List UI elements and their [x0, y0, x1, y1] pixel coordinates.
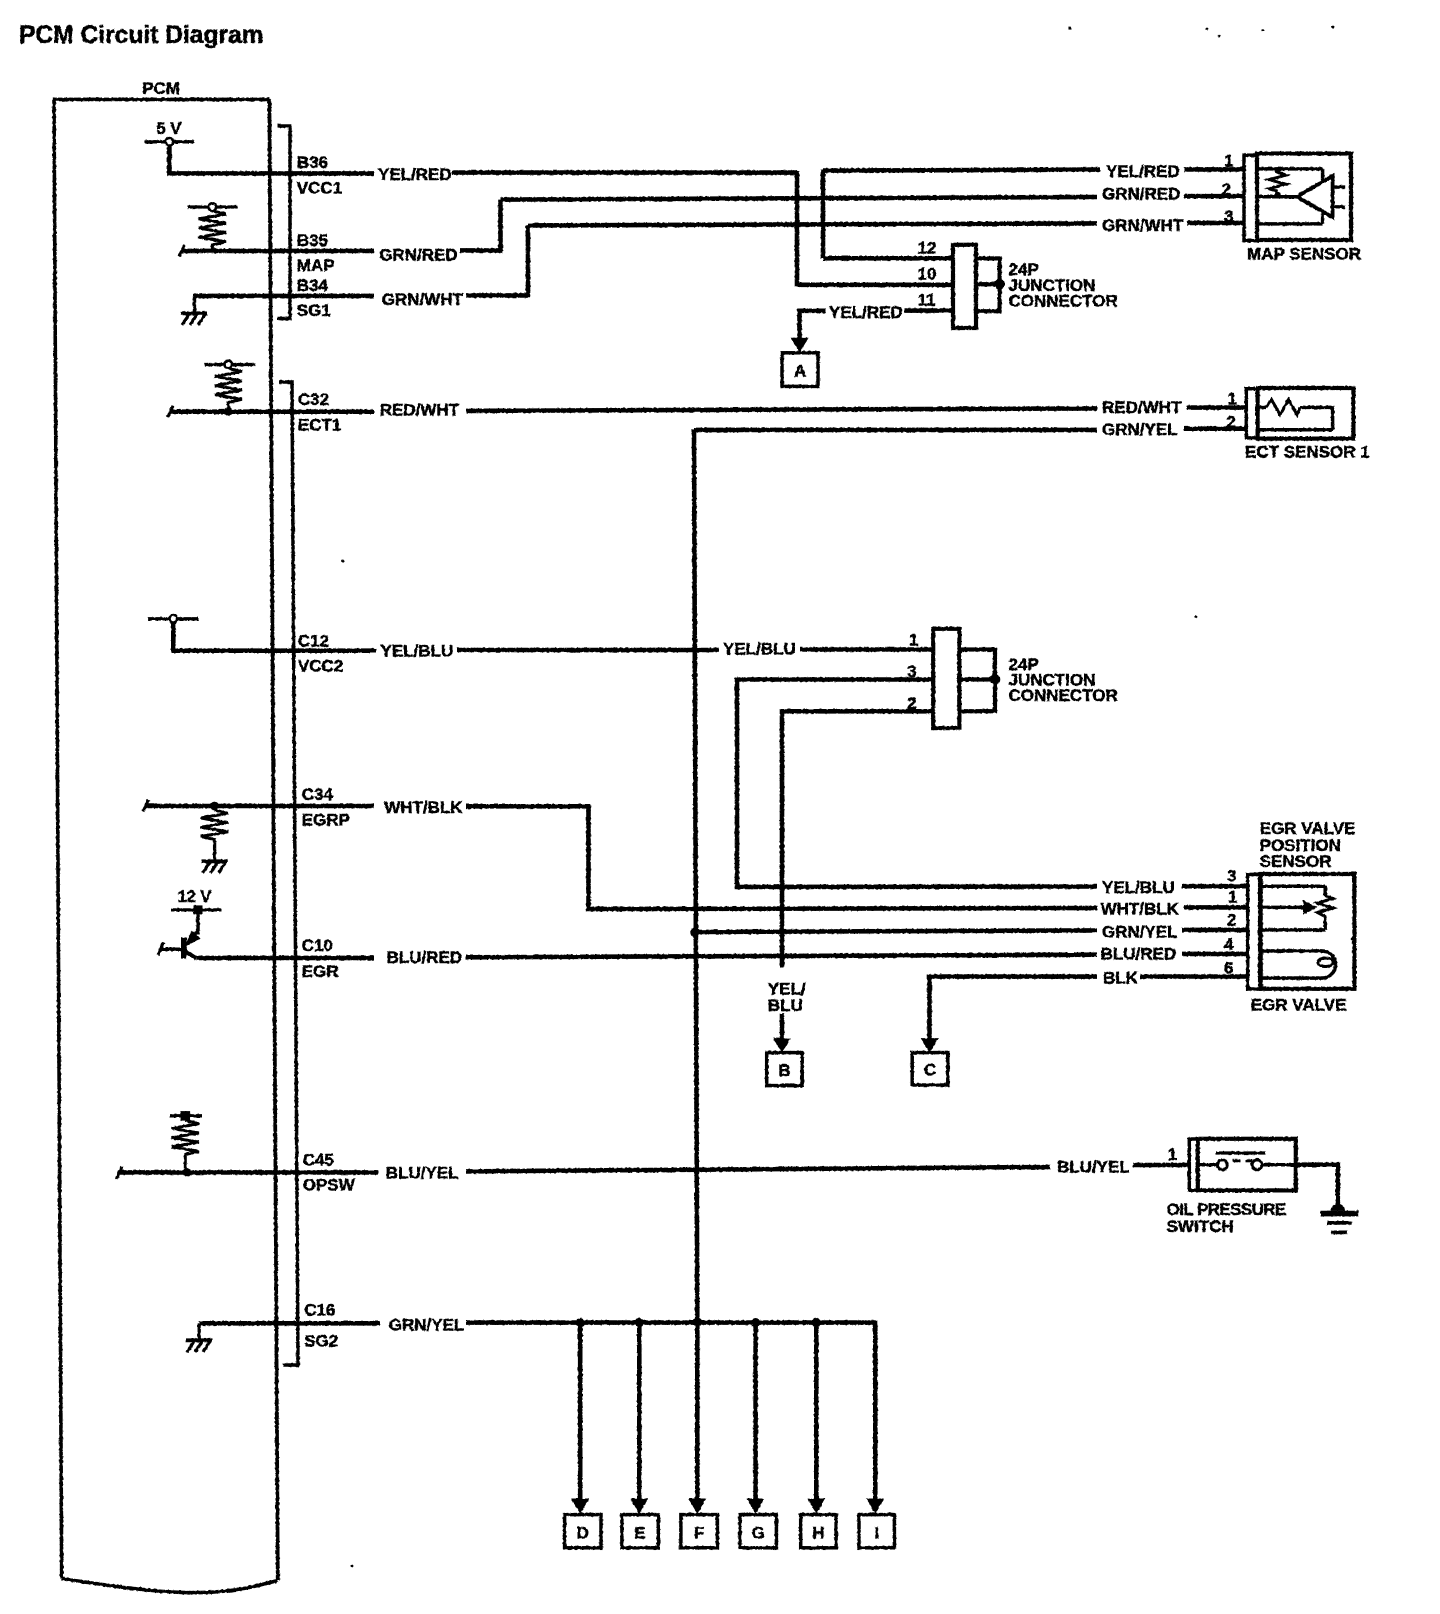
svg-text:H: H [812, 1523, 824, 1542]
svg-text:G: G [752, 1523, 765, 1542]
svg-text:C12: C12 [298, 632, 329, 651]
svg-text:BLU: BLU [768, 996, 803, 1015]
svg-text:B34: B34 [297, 276, 329, 295]
svg-text:3: 3 [1227, 866, 1236, 885]
svg-text:BLK: BLK [1103, 969, 1139, 988]
svg-text:GRN/RED: GRN/RED [1102, 184, 1180, 203]
svg-text:WHT/BLK: WHT/BLK [1101, 900, 1180, 919]
svg-text:1: 1 [1224, 151, 1233, 170]
svg-text:MAP: MAP [297, 256, 335, 275]
svg-text:A: A [794, 361, 806, 380]
svg-text:BLU/RED: BLU/RED [387, 948, 463, 967]
svg-text:GRN/YEL: GRN/YEL [1102, 420, 1178, 439]
svg-text:3: 3 [907, 662, 916, 681]
svg-text:C16: C16 [304, 1301, 335, 1320]
svg-text:YEL/RED: YEL/RED [1106, 162, 1180, 181]
svg-text:GRN/RED: GRN/RED [379, 245, 457, 264]
svg-text:EGR VALVE: EGR VALVE [1251, 996, 1347, 1015]
svg-text:4: 4 [1224, 935, 1234, 954]
svg-text:10: 10 [918, 265, 937, 284]
svg-text:ECT SENSOR 1: ECT SENSOR 1 [1245, 442, 1370, 461]
svg-text:C34: C34 [302, 785, 334, 804]
svg-text:6: 6 [1224, 958, 1233, 977]
svg-text:BLU/YEL: BLU/YEL [1057, 1158, 1130, 1177]
svg-text:2: 2 [1227, 412, 1236, 431]
svg-text:EGRP: EGRP [302, 811, 350, 830]
svg-text:GRN/YEL: GRN/YEL [389, 1316, 465, 1335]
svg-text:CONNECTOR: CONNECTOR [1009, 292, 1118, 311]
svg-text:12: 12 [918, 238, 937, 257]
svg-text:ECT1: ECT1 [298, 416, 341, 435]
svg-text:SENSOR: SENSOR [1260, 852, 1332, 871]
svg-text:PCM Circuit Diagram: PCM Circuit Diagram [19, 22, 264, 49]
svg-text:YEL/BLU: YEL/BLU [723, 640, 796, 659]
svg-text:EGR: EGR [302, 962, 339, 981]
svg-text:WHT/BLK: WHT/BLK [384, 798, 463, 817]
svg-text:D: D [577, 1523, 589, 1542]
svg-text:3: 3 [1224, 207, 1233, 226]
svg-text:1: 1 [1228, 390, 1237, 409]
svg-text:SG1: SG1 [297, 301, 331, 320]
svg-text:E: E [634, 1523, 645, 1542]
svg-text:B35: B35 [297, 231, 328, 250]
svg-text:12 V: 12 V [178, 888, 212, 906]
svg-text:SG2: SG2 [304, 1331, 338, 1350]
svg-text:GRN/WHT: GRN/WHT [1102, 216, 1184, 235]
svg-text:YEL/RED: YEL/RED [378, 165, 452, 184]
svg-text:1: 1 [909, 630, 918, 649]
svg-text:C: C [924, 1060, 936, 1079]
svg-text:B36: B36 [297, 153, 328, 172]
svg-text:BLU/YEL: BLU/YEL [386, 1164, 459, 1183]
svg-text:1: 1 [1228, 887, 1237, 906]
svg-text:11: 11 [918, 291, 936, 310]
svg-text:VCC2: VCC2 [298, 657, 343, 676]
svg-text:2: 2 [907, 694, 916, 713]
svg-text:OPSW: OPSW [303, 1175, 356, 1194]
svg-text:5 V: 5 V [157, 120, 182, 138]
svg-text:1: 1 [1168, 1145, 1177, 1164]
svg-text:C45: C45 [303, 1151, 334, 1170]
svg-text:2: 2 [1222, 180, 1231, 199]
svg-text:YEL/BLU: YEL/BLU [381, 642, 454, 661]
svg-text:MAP SENSOR: MAP SENSOR [1247, 244, 1361, 263]
svg-text:BLU/RED: BLU/RED [1101, 945, 1177, 964]
svg-text:C32: C32 [298, 390, 329, 409]
svg-text:C10: C10 [302, 936, 333, 955]
svg-text:YEL/BLU: YEL/BLU [1102, 878, 1175, 897]
svg-text:I: I [874, 1523, 879, 1542]
svg-text:RED/WHT: RED/WHT [380, 401, 460, 420]
svg-text:YEL/RED: YEL/RED [829, 303, 903, 322]
svg-text:RED/WHT: RED/WHT [1102, 398, 1182, 417]
svg-text:CONNECTOR: CONNECTOR [1009, 686, 1118, 705]
svg-text:SWITCH: SWITCH [1167, 1217, 1234, 1236]
svg-text:2: 2 [1227, 910, 1236, 929]
svg-text:PCM: PCM [142, 79, 180, 98]
svg-text:F: F [694, 1523, 704, 1542]
svg-text:B: B [778, 1061, 790, 1080]
svg-text:GRN/WHT: GRN/WHT [382, 290, 464, 309]
svg-text:VCC1: VCC1 [297, 179, 342, 198]
svg-text:GRN/YEL: GRN/YEL [1102, 922, 1178, 941]
